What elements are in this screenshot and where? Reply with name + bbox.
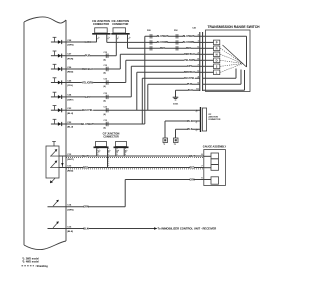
svg-text:PUR: PUR — [187, 83, 192, 86]
svg-text:RED: RED — [189, 166, 194, 169]
svg-text:GRY: GRY — [187, 65, 193, 68]
svg-text:(4): (4) — [104, 113, 107, 116]
svg-text:C12: C12 — [104, 120, 107, 122]
svg-text:(4): (4) — [104, 100, 107, 103]
svg-text:RED: RED — [186, 47, 191, 50]
svg-text:WHT: WHT — [83, 155, 89, 158]
svg-text:(GRN): (GRN) — [67, 209, 74, 211]
svg-text:R: R — [216, 46, 218, 50]
svg-text:YEL/GRN: YEL/GRN — [184, 59, 195, 62]
svg-text:(YEL): (YEL) — [67, 85, 73, 87]
svg-text:(PUR): (PUR) — [67, 58, 73, 60]
svg-text:BLK: BLK — [188, 120, 193, 123]
svg-text:BLK: BLK — [188, 89, 193, 92]
svg-text:WHT: WHT — [189, 155, 195, 158]
svg-text:RED: RED — [160, 47, 165, 50]
svg-text:(4): (4) — [104, 127, 107, 130]
svg-text:(RED): (RED) — [67, 72, 73, 74]
svg-text:GRN: GRN — [85, 40, 91, 44]
svg-text:BLU/ORN: BLU/ORN — [183, 41, 195, 44]
svg-text:C12: C12 — [104, 106, 107, 108]
svg-text:CONNECTOR: CONNECTOR — [112, 23, 128, 26]
svg-text:(BLU): (BLU) — [67, 113, 73, 115]
svg-text:GAUGE ASSEMBLY: GAUGE ASSEMBLY — [203, 145, 227, 148]
svg-text:GRY: GRY — [85, 95, 91, 99]
svg-text:To IMMOBILIZER CONTROL UNIT -: To IMMOBILIZER CONTROL UNIT - RECEIVER — [158, 226, 217, 230]
svg-text:D: D — [216, 58, 218, 62]
svg-text:PUR: PUR — [85, 54, 91, 58]
svg-text:(WHT): (WHT) — [67, 159, 74, 161]
svg-text:BLU/YEL: BLU/YEL — [184, 77, 195, 80]
svg-text:(4): (4) — [104, 72, 107, 75]
svg-text:N: N — [216, 52, 218, 56]
svg-text:(BLU): (BLU) — [67, 127, 73, 129]
svg-text:*2: 4WD model: *2: 4WD model — [22, 261, 39, 264]
svg-text:P: P — [216, 40, 218, 44]
svg-text:BLU/WHT: BLU/WHT — [183, 35, 195, 38]
svg-text:BLU/ORN: BLU/ORN — [157, 41, 169, 44]
svg-text:RED/BLK: RED/BLK — [82, 67, 94, 71]
svg-text:C12: C12 — [104, 65, 107, 67]
svg-text:BLU/YEL: BLU/YEL — [82, 108, 94, 112]
svg-text:BLK: BLK — [83, 227, 88, 230]
svg-text:(GRY): (GRY) — [67, 100, 73, 102]
svg-text:C12: C12 — [104, 79, 107, 81]
svg-text:CONNECTOR: CONNECTOR — [208, 119, 221, 121]
svg-text:: Shielding: : Shielding — [35, 265, 48, 268]
svg-text:GRN: GRN — [83, 206, 89, 209]
svg-text:(GRN): (GRN) — [67, 45, 74, 47]
svg-text:(4): (4) — [104, 58, 107, 61]
svg-text:CONNECTOR: CONNECTOR — [93, 23, 109, 26]
svg-text:TRANSMISSION RANGE SWITCH: TRANSMISSION RANGE SWITCH — [208, 25, 261, 29]
svg-text:(BLK): (BLK) — [67, 231, 73, 233]
svg-text:C12: C12 — [104, 52, 107, 54]
svg-text:RED/BLK: RED/BLK — [184, 53, 195, 56]
svg-text:G101: G101 — [173, 103, 179, 105]
svg-text:C12: C12 — [104, 93, 107, 95]
svg-text:RED: RED — [83, 166, 88, 169]
svg-text:GRN: GRN — [189, 178, 195, 181]
svg-text:YEL/GRN: YEL/GRN — [82, 80, 94, 84]
svg-text:BRN/BLK: BRN/BLK — [184, 71, 195, 74]
svg-text:CONNECTOR: CONNECTOR — [103, 135, 119, 138]
svg-text:BLK: BLK — [188, 128, 193, 131]
svg-text:BLU/WHT: BLU/WHT — [157, 35, 169, 38]
svg-text:(RED): (RED) — [67, 170, 73, 172]
svg-text:(4): (4) — [104, 85, 107, 88]
svg-text:BLU/WHT: BLU/WHT — [82, 122, 94, 126]
